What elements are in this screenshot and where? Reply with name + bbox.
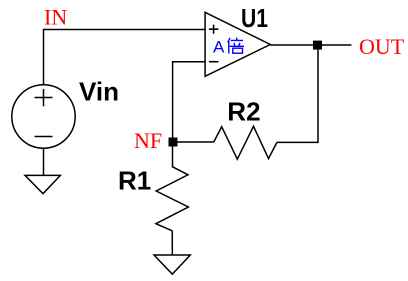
wire NF net: op-amp inverting input down to node NF [173, 62, 205, 138]
label R1 [118, 165, 151, 195]
node NF junction [169, 138, 178, 147]
wire node NF to R2 left [178, 141, 214, 143]
op-amp U1 [205, 12, 270, 76]
resistor R1 [156, 166, 189, 230]
svg-text:IN: IN [44, 5, 67, 30]
label NF [134, 128, 162, 153]
label IN [44, 5, 67, 30]
wire R1 bottom to ground [171, 231, 173, 255]
label U1 [241, 3, 268, 33]
node OUT junction [313, 41, 322, 50]
voltage source Vin [12, 85, 75, 148]
wire R2 right up to node OUT [277, 50, 318, 143]
resistor R2 [214, 126, 277, 159]
op-amp non-inverting input plus mark [209, 25, 219, 34]
label A (gain) [213, 37, 225, 56]
voltage source plus mark [35, 89, 53, 106]
wire OUT net: op-amp output to the right [270, 44, 351, 46]
label bei (times) glyph [228, 38, 244, 54]
ground [154, 255, 190, 274]
svg-text:U1: U1 [241, 3, 268, 33]
wire source bottom to ground [43, 148, 45, 175]
svg-text:NF: NF [134, 128, 162, 153]
svg-text:Vin: Vin [79, 77, 119, 107]
op-amp inverting input minus mark [209, 61, 219, 63]
svg-text:R1: R1 [118, 165, 151, 195]
svg-text:OUT: OUT [359, 34, 405, 59]
svg-text:A: A [213, 37, 225, 56]
label Vin [79, 77, 119, 107]
voltage source minus mark [35, 136, 53, 138]
svg-text:R2: R2 [227, 97, 260, 127]
label OUT [359, 34, 405, 59]
wire IN net: source top to op-amp + input [44, 30, 206, 86]
wire node NF to R1 top [172, 146, 174, 166]
ground [25, 175, 60, 193]
label R2 [227, 97, 260, 127]
